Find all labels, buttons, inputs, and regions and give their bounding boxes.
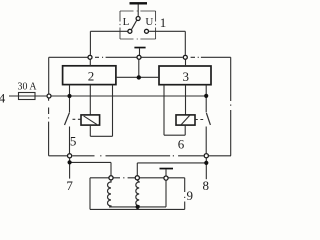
svg-text:4: 4	[0, 90, 6, 105]
svg-text:U: U	[145, 16, 153, 28]
svg-text:5: 5	[70, 134, 77, 149]
svg-text:1: 1	[160, 15, 167, 30]
svg-text:2: 2	[88, 69, 95, 84]
svg-text:30 A: 30 A	[18, 80, 37, 92]
svg-text:L: L	[123, 16, 130, 28]
svg-text:3: 3	[183, 69, 190, 84]
svg-text:6: 6	[178, 136, 185, 151]
svg-text:9: 9	[186, 188, 193, 203]
svg-text:8: 8	[203, 178, 210, 193]
svg-text:7: 7	[66, 178, 73, 193]
